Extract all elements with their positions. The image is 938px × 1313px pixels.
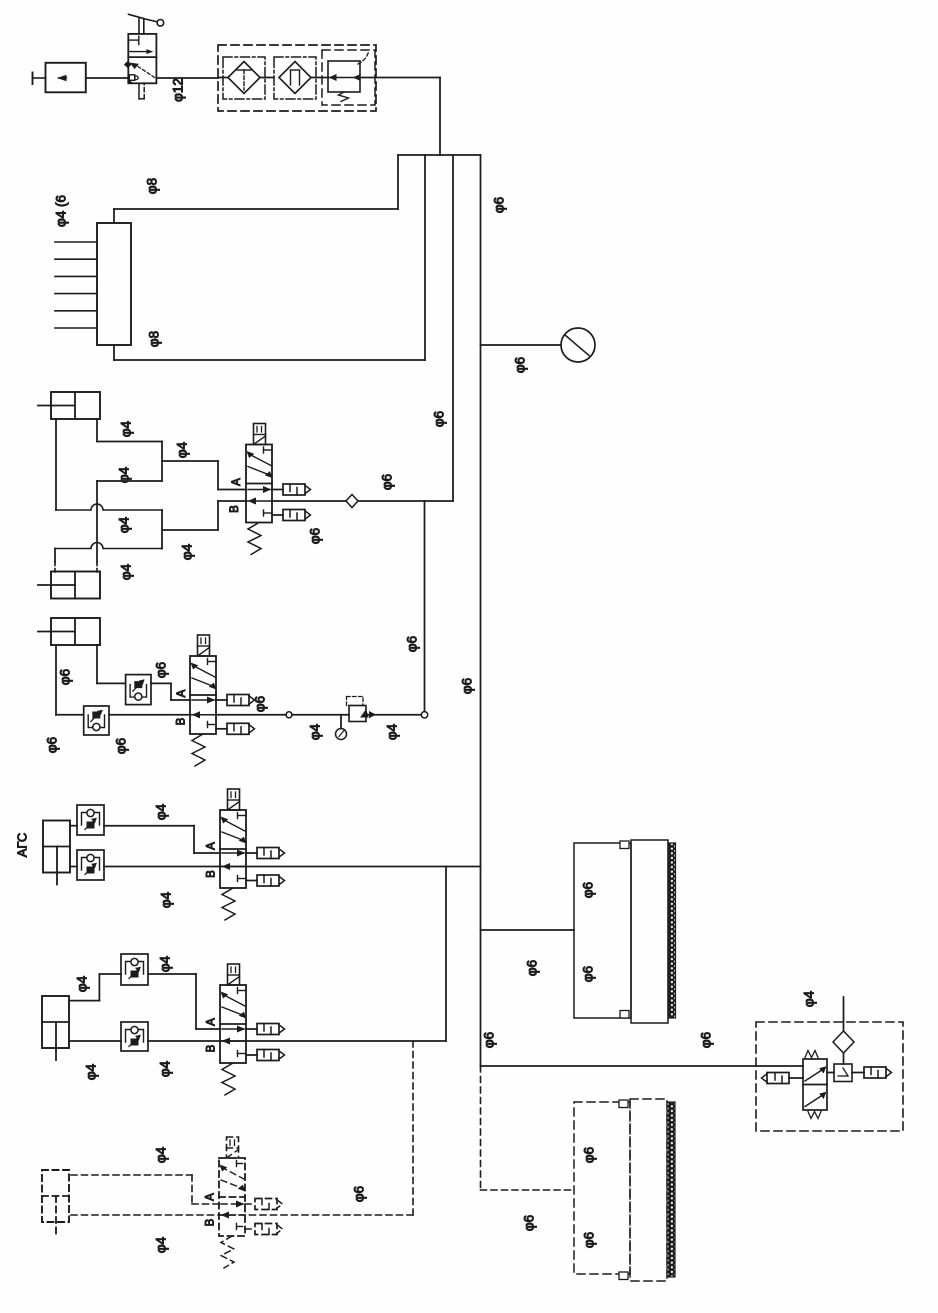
solenoid of V3 [228,789,240,810]
regulator R1 dashed box [322,50,375,105]
svg-text:φ4: φ4 [175,441,190,458]
wire branch to manifold top phi8 [114,155,398,223]
valve V4 body [220,985,246,1063]
svg-text:φ4: φ4 [117,516,132,533]
gauge M2 [336,729,347,740]
cylinder C1 [38,392,100,419]
wire B-net branch to valve [162,501,246,530]
blow-off unit dashed enclosure [756,1022,903,1131]
svg-text:φ4 (6: φ4 (6 [54,195,69,227]
wire C2 cap-port rise [96,481,98,562]
cylinder C2 [38,572,100,599]
wire D2 top port [69,974,121,1001]
regulator R1 body [328,52,369,102]
flow control FC5 [121,954,148,985]
main bus vertical phi6 [480,155,482,1066]
svg-text:φ4: φ4 [84,1063,99,1080]
svg-text:φ6: φ6 [581,882,596,898]
muffler V2-2 [227,723,255,734]
spring of V5 dashed [221,1236,234,1268]
svg-text:φ6: φ6 [253,696,268,712]
spray bar SB2 plenum dashed [574,1102,630,1274]
solenoid of V2 [198,635,210,656]
wire C3 rod-port down [55,645,57,715]
wire C2 rod horizontal with hop [55,543,162,549]
wire check valve to bus riser [358,500,453,502]
wire bus to blow-off unit [481,1065,804,1067]
svg-text:φ6: φ6 [525,960,540,976]
svg-text:φ6: φ6 [522,1215,537,1231]
wire bus to spray bar SB1 [481,929,575,931]
wire V0 to FRL [156,77,218,79]
shutoff valve V0 body [125,34,157,83]
device D2 (vertical cylinder) [42,996,69,1060]
wire feed drop to header [439,78,441,156]
wire A-net horizontal upper [97,441,162,443]
wire node to regulator R2 [292,714,349,716]
svg-text:φ6: φ6 [45,737,60,753]
FRL unit outer dashed box [218,45,376,111]
filter F1 dash-dot box [223,57,265,99]
right muffler of unit [864,1067,892,1078]
distribution manifold block [97,223,131,345]
wire V2 to muffler 1 [216,699,227,701]
svg-text:A: A [205,1193,217,1201]
wire A-net vertical x162 [161,442,163,482]
spring of V3 [222,888,235,920]
svg-text:φ4: φ4 [385,723,400,740]
svg-text:φ4: φ4 [119,563,134,580]
junction circle node 1 [286,712,292,718]
flow control FC3 [77,805,104,835]
solenoid of V5 dashed [227,1137,239,1158]
wire V3 to muffler 2 [246,880,257,882]
svg-text:φ6: φ6 [405,636,420,652]
muffler V3-1 [257,848,285,859]
wire F1 inlet [218,77,228,79]
wire C3 rod to flow control [56,714,84,716]
spring top of V6 [805,1051,818,1058]
svg-text:φ6: φ6 [380,474,395,490]
svg-text:φ6: φ6 [114,738,129,754]
svg-text:φ4: φ4 [154,1146,169,1163]
spring of V2 [192,734,205,766]
wire check block up to filter [843,1053,845,1064]
spring of V1 [248,523,261,555]
check valve diamond [346,495,358,508]
muffler V1-2 [283,510,311,521]
wire B-net C1 rod horizontal with hop [56,504,162,510]
arrow on R2 output [370,712,376,718]
svg-text:φ6: φ6 [460,678,475,694]
svg-text:φ4: φ4 [308,723,323,740]
muffler V5-1 dashed [245,1199,283,1210]
dashed bus continuation [480,1066,482,1190]
flow control FC1 [84,706,109,735]
lubricator F2 dash-dot box [274,57,316,99]
wire silencer to shutoff valve [86,77,129,79]
lubricator F2 diamond [279,62,311,94]
flow control FC6 [121,1022,148,1051]
wire FC6 to junction x446 (through V4) [148,1040,446,1042]
svg-text:B: B [176,717,188,725]
bus riser phi6 no.3 [452,155,454,501]
junction circle node 2 [421,712,427,718]
lever actuator of V0 [129,14,164,34]
svg-text:φ6: φ6 [581,966,596,982]
wire R2 to node 2 [366,714,421,716]
valve V6 body [803,1059,827,1110]
intake end cap [33,73,46,85]
wire AGS bottom port to FC4 [70,866,77,868]
muffler V1-1 [283,484,311,495]
spray bar SB1 plenum [574,843,631,1018]
solenoid of V1 [254,424,266,445]
spray bar SB1 tube [631,840,668,1023]
wire C2 rod-port [54,549,56,563]
dashed wire D3 top port [71,1175,219,1204]
spring of V4 [222,1063,235,1095]
svg-text:φ6: φ6 [582,1232,597,1248]
wire F1 to F2 [260,77,274,79]
flow control FC2 [126,675,151,705]
wire FC4 to bus (through V3) [104,866,481,868]
svg-text:φ4: φ4 [154,803,169,820]
wire V2 supply to node [216,714,286,716]
valve V1 body [246,445,272,523]
svg-text:φ6: φ6 [513,357,528,373]
gauge M2 stem [340,715,342,729]
valve V5 body dashed [219,1158,245,1236]
muffler V5-2 dashed [245,1224,283,1235]
wire FC5 to valve V4 A [148,974,220,1029]
wire C3 cap to flow control [97,682,126,684]
spray bar SB2 tube dashed [630,1099,667,1281]
wire F2 to regulator R1 [311,77,328,79]
svg-text:B: B [205,1218,217,1226]
wire branch to manifold bottom phi8 [114,155,425,360]
dashed hose C2 rod [54,562,56,572]
svg-text:φ6: φ6 [482,1032,497,1048]
muffler V4-2 [257,1050,285,1061]
intake silencer/filter box [46,63,86,93]
svg-text:φ4: φ4 [119,420,134,437]
check block square [834,1064,852,1082]
svg-text:φ6: φ6 [58,669,73,685]
spring bottom of V6 [808,1112,821,1119]
svg-text:A: A [206,842,218,850]
svg-text:φ6: φ6 [352,1186,367,1202]
AGS device (vertical cylinder) [43,821,70,885]
svg-text:φ8: φ8 [145,178,160,194]
wire FC2 to valve V2 A [151,683,190,700]
valve V2 body [190,656,216,734]
svg-text:φ12: φ12 [171,78,186,102]
valve V3 body [220,810,246,888]
wire C1 rod-port down [55,419,57,510]
SB1 connector tab top [620,841,629,849]
svg-text:φ4: φ4 [75,975,90,992]
SB1 nozzle hatch band [668,843,676,1018]
manifold outlet tubes phi4 x6 [55,242,97,328]
dashed wire to spray bar SB2 [481,1189,575,1191]
suction wire up [843,997,845,1031]
wire AGS top port to FC3 [70,825,77,827]
wire FC3 to valve V3 A [104,826,220,853]
filter F1 diamond [228,62,260,94]
cylinder C3 [38,618,100,645]
svg-text:φ4: φ4 [158,955,173,972]
wire V6 to left muffler [789,1077,803,1079]
dashed hose C2 cap [96,562,98,572]
svg-text:φ8: φ8 [147,331,162,347]
muffler V4-1 [257,1024,285,1035]
svg-text:A: A [206,1018,218,1026]
svg-text:φ4: φ4 [802,990,817,1007]
wire V2 to muffler 2 [216,728,227,730]
SB2 connector tab top [619,1100,628,1108]
svg-text:φ4: φ4 [154,1236,169,1253]
muffler V2-1 [227,695,255,706]
svg-text:АГС: АГС [14,833,29,858]
flow control FC4 [77,850,104,880]
svg-text:A: A [231,478,243,486]
wire V4 to muffler 2 [246,1054,257,1056]
wire V1 supply to check valve [272,500,346,502]
wire drop from supply line to regulator node [424,501,426,711]
wire V4 to muffler 1 [246,1028,257,1030]
left muffler of unit [762,1073,790,1084]
wire gauge branch [481,344,562,346]
SB1 connector tab bottom [620,1011,629,1019]
wire C1 cap-port down [96,419,98,442]
svg-text:φ6: φ6 [308,528,323,544]
wire C3 cap-port down [96,645,98,683]
svg-text:φ6: φ6 [699,1032,714,1048]
exhaust stub of V0 [139,83,144,99]
svg-text:φ6: φ6 [154,662,169,678]
future device D3 dashed [42,1170,69,1234]
svg-text:B: B [229,505,241,513]
wire R1 to corner [360,77,440,79]
pressure regulator R2 body [347,697,369,722]
svg-text:φ4: φ4 [158,1060,173,1077]
svg-text:φ4: φ4 [117,466,132,483]
wire D2 bottom port to FC6 [69,1040,121,1042]
svg-text:φ4: φ4 [159,891,174,908]
wire V3 to muffler 1 [246,852,257,854]
wire FC1 to valve V2 B [109,714,190,716]
solenoid of V4 [228,964,240,985]
filter diamond of unit [833,1031,854,1053]
muffler V3-2 [257,875,285,886]
svg-text:φ4: φ4 [180,543,195,560]
wire feeder x446 from AGS line [445,867,447,1042]
svg-text:B: B [206,870,218,878]
svg-text:B: B [206,1044,218,1052]
SB2 connector tab bottom [619,1272,628,1280]
wire V6 to check block [827,1072,834,1074]
wire V1 to muffler 2 [272,514,283,516]
dashed drop wire to future valve [412,1041,414,1215]
dashed wire D3 bottom to drop [71,1214,413,1216]
wire B-net vertical x162 [161,510,163,549]
header bar [398,154,481,156]
wire C2 cap horizontal [97,480,162,482]
pressure gauge M1 [561,328,595,362]
svg-text:φ6: φ6 [492,197,507,213]
svg-text:A: A [176,689,188,697]
svg-text:φ6: φ6 [432,411,447,427]
wire V1 to muffler 1 [272,489,283,491]
svg-text:φ6: φ6 [582,1147,597,1163]
wire A-net branch to valve [162,461,246,490]
wire check block to right muffler [852,1072,864,1074]
SB2 nozzle hatch band [667,1102,675,1277]
